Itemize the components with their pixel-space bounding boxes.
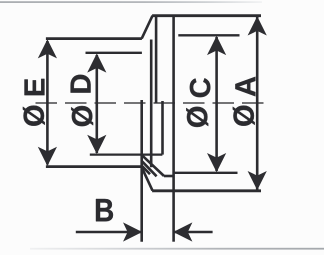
OD dimension line (96, 55, 99, 153)
label B (96, 199, 113, 221)
flange bore step vertical (161, 101, 164, 155)
diameter symbol for C (186, 107, 208, 127)
flange right face (172, 16, 175, 191)
OC top arrow (207, 36, 226, 55)
label A (235, 77, 255, 96)
B dimension line left (76, 231, 141, 234)
OA dimension line (256, 17, 259, 190)
flange top line (152, 14, 261, 17)
diameter symbol for D (71, 106, 93, 126)
tube top line (also OE extension) (46, 37, 142, 40)
tube end face vertical (150, 40, 153, 168)
label E (24, 79, 44, 95)
diameter symbol for A (233, 106, 255, 126)
label C (190, 78, 211, 97)
OD top arrow (87, 53, 106, 72)
B right extension (172, 191, 175, 242)
tube inner bore bottom line (90, 153, 163, 155)
flange bottom line (152, 189, 261, 192)
weld hatch 1 (142, 161, 157, 176)
top grey border (0, 1, 262, 3)
OC bottom extension (174, 172, 238, 174)
OD top extension line (86, 52, 142, 54)
bottom grey border (30, 248, 324, 250)
label D (71, 75, 91, 93)
OE dimension line (46, 41, 49, 165)
groove diagonal (142, 155, 164, 176)
OC dimension line (215, 37, 218, 171)
B right arrow (173, 222, 192, 241)
weld hatch 2 (142, 166, 150, 174)
flange inner vertical (155, 16, 158, 103)
OA bottom arrow (248, 171, 267, 190)
B left arrow (123, 222, 142, 241)
OD bottom arrow (87, 135, 106, 154)
B left extension (140, 100, 143, 242)
OC bottom arrow (207, 153, 226, 172)
OA top arrow (248, 16, 267, 35)
flange chamfer top (142, 16, 153, 39)
B dimension line right (175, 231, 213, 234)
flange chamfer bottom (142, 167, 153, 190)
tube bottom line (also OE extension) (46, 165, 142, 168)
arrowheads (38, 16, 267, 241)
OC top extension (178, 34, 239, 36)
centerline (36, 102, 268, 104)
diameter symbol for E (23, 106, 45, 126)
OE bottom arrow (38, 147, 57, 166)
OE top arrow (38, 39, 57, 58)
groove step (164, 175, 174, 178)
